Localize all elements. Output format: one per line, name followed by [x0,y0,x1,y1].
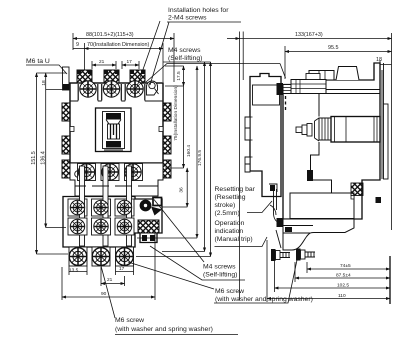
center window [96,108,132,152]
front view lower contactor section [70,163,163,196]
row2 terminal frame C [125,164,143,181]
row2 screw B [102,164,118,180]
svg-text:136.4: 136.4 [41,151,47,165]
relay terminal frame row4 A [68,218,87,235]
svg-text:indication: indication [215,228,244,235]
relay mid band [283,226,313,234]
strap C [127,166,132,246]
dimension 74+5 bottom [307,262,390,273]
dimension 90 bottom [62,233,155,300]
svg-text:(with washer and spring washer: (with washer and spring washer) [115,326,213,333]
mounting tab upper [245,117,250,140]
row1 recess walls [78,84,145,101]
svg-text:18: 18 [41,80,47,86]
strap A [80,166,85,246]
svg-text:74±5: 74±5 [340,263,351,269]
case lower-left steps [307,94,352,197]
relay clip contacts [142,235,147,241]
mounting tab lower [245,157,250,172]
dimension 136.4 left [46,73,66,228]
dimension 133(167+3) top side view [227,32,392,301]
svg-text:17: 17 [119,266,125,272]
dimension 13.5 bottom [69,266,87,275]
note: operation indication [215,220,268,247]
svg-text:151.5: 151.5 [31,151,37,165]
dimension 110 bottom [267,240,390,304]
svg-text:160.4: 160.4 [186,145,192,157]
note: M4 screws (Self-lifting) upper [146,47,286,82]
relay trip blob [151,207,162,216]
front cover plate [351,63,388,203]
svg-text:M4 screws: M4 screws [168,47,201,54]
row4 screw B [94,219,108,233]
body ledge line above straps [75,185,158,187]
svg-text:87.5±4: 87.5±4 [336,273,351,279]
bottom tab C [116,247,134,266]
row3 screw C [117,200,131,214]
bottom tab A [69,247,87,266]
row5 screw C [116,248,134,266]
row4 screw A [70,219,84,233]
dimension 17 top [122,61,139,69]
front view upper body outline [70,83,163,163]
svg-text:Installation holes for: Installation holes for [168,7,229,14]
terminal block T1 [77,70,92,83]
corner tab bottom-right [163,160,171,178]
relay terminal frame row3 B [92,199,111,216]
label M6 ta U [26,58,67,74]
side relay screw B [296,249,315,261]
dimension 102.5 bottom [275,252,391,292]
note: M4 screws (Self-lifting) lower [150,200,245,281]
case top trapezoid hump [336,67,359,81]
armature core pin [296,118,319,141]
row2 screw A [78,164,94,180]
case top hump block [309,71,334,81]
row5 screw B [92,248,110,266]
row3 screw B [94,200,108,214]
row2 screw C [125,164,141,180]
svg-text:18: 18 [376,57,382,63]
dimension 95.5 side view [285,46,392,79]
dimension 75 installation right [165,86,184,168]
terminal block T2 [104,70,119,83]
side tab right lower [163,136,171,154]
side relay profile [283,197,354,251]
side M4 screw [277,83,293,110]
note: installation holes for 2-M4 screws [137,7,242,88]
svg-text:9: 9 [76,42,79,48]
svg-text:(Resetting: (Resetting [215,194,246,201]
case mid line [283,90,380,94]
dimension 151.5 left [37,73,69,254]
svg-text:2-M4 screws: 2-M4 screws [168,15,207,22]
note: M6 screw bottom [101,266,238,335]
svg-text:133(167+3): 133(167+3) [295,32,323,38]
svg-text:176.9.5: 176.9.5 [197,150,203,166]
row1 screw C [127,81,143,97]
side tab left upper [62,103,70,121]
svg-text:M6 ta U: M6 ta U [26,58,50,65]
dimension 36 right [186,168,188,207]
note: M6 screw right [128,260,313,303]
svg-text:(2.5mm): (2.5mm) [215,210,240,217]
svg-text:21: 21 [107,277,113,283]
svg-text:21: 21 [99,59,105,65]
corner tab bottom-left [62,160,70,178]
svg-text:17: 17 [127,59,133,65]
row5 screw A [69,248,87,266]
svg-text:36: 36 [179,187,185,193]
installation hole bottom-left [75,171,82,178]
terminal block T3 [130,70,145,83]
svg-text:stroke): stroke) [215,202,236,209]
svg-text:(Self-lifting): (Self-lifting) [168,55,202,62]
svg-text:17.5: 17.5 [176,71,182,81]
svg-text:(Manual trip): (Manual trip) [215,236,253,243]
dimension 18 tick [46,89,64,91]
dimension 160.4 right [137,66,197,238]
body recess line under row1 [70,100,163,102]
row2 terminal frame B [101,164,119,181]
dimension 21 top [92,61,116,69]
row1 screw B [103,81,119,97]
dimension 88(101.5+2)(115+3) top [73,33,174,82]
row3 screw A [70,200,84,214]
side relay screw A [271,249,290,261]
arc cover cylinder body [331,117,380,143]
svg-text:70(Installation Dimension): 70(Installation Dimension) [87,42,150,48]
back plate inner panel [253,85,280,105]
side terminal bar [291,74,326,94]
note: resetting bar [215,186,273,217]
svg-text:95.5: 95.5 [328,45,339,51]
relay terminal frame row4 C [115,218,134,235]
dimension 9 and 70 installation [73,43,163,82]
relay indicator window [153,198,162,206]
relay terminal frame row3 A [68,199,87,216]
case inner bracket [290,193,354,219]
svg-text:Operation: Operation [215,220,245,227]
svg-text:M6 screw: M6 screw [115,317,144,324]
side reset bar detail [269,184,283,248]
dimension 21 bottom [101,267,125,286]
svg-text:Resetting bar: Resetting bar [215,186,256,193]
svg-text:102.5: 102.5 [337,283,349,289]
side tab right upper [163,103,171,121]
svg-text:90: 90 [101,291,107,297]
side view main case [283,63,380,219]
arc cover cylinder ribs [319,118,331,140]
row4 screw C [117,219,131,233]
svg-text:110: 110 [338,293,346,299]
aux terminal ear top-left [63,67,70,90]
dimension 17.5 right [165,66,184,86]
row1 screw A [80,81,96,97]
row2 terminal frame A [78,164,96,181]
svg-text:(with washer and spring washer: (with washer and spring washer) [215,296,313,303]
body edge nibs [70,127,74,132]
installation hole top-right [147,81,159,95]
svg-text:75(Installation Dimension): 75(Installation Dimension) [173,85,179,141]
bottom tab B [92,247,110,266]
side tab left lower [62,136,70,154]
svg-text:M4 screws: M4 screws [203,264,236,271]
thermal relay body [63,197,162,248]
dimension 87.5+4 bottom [295,262,390,282]
dimension 17 bottom [116,266,134,275]
relay hatched block [138,220,159,233]
side view back plate [250,74,281,197]
strap B [103,166,108,246]
relay terminal frame row3 C [115,199,134,216]
relay reset button [140,200,151,211]
dimension 176.9.5 right [136,62,211,257]
svg-text:13.5: 13.5 [69,268,79,274]
svg-text:(Self-lifting): (Self-lifting) [203,272,237,279]
svg-text:88(101.5+2)(115+3): 88(101.5+2)(115+3) [86,32,134,38]
relay terminal frame row4 B [92,218,111,235]
